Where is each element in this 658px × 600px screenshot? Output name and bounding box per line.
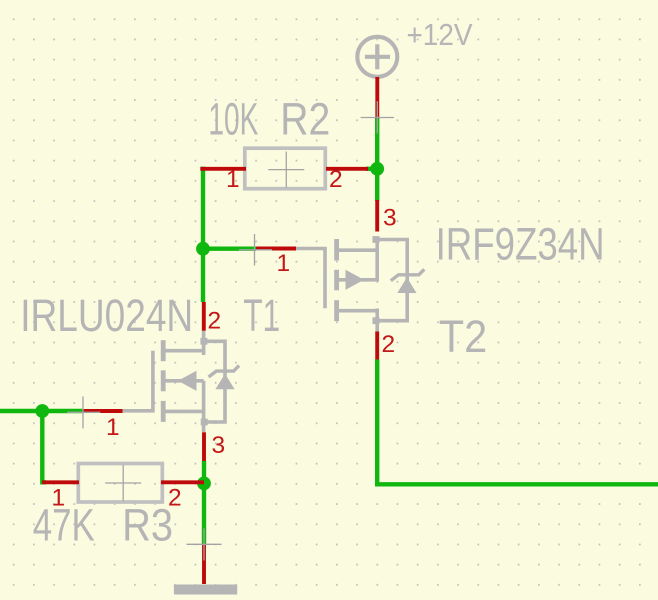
svg-text:10K: 10K	[208, 94, 258, 145]
T2 gate pin cross	[239, 234, 272, 266]
T1 channel bar top	[161, 340, 166, 361]
R2 pin 2	[326, 167, 368, 171]
T2 gate pin 1	[256, 247, 296, 251]
T2 channel bar middle	[334, 270, 339, 291]
T2 body diode triangle	[397, 277, 416, 293]
T1 gate pin cross	[67, 396, 100, 428]
T2 body branch	[377, 240, 407, 321]
T1 drain connector	[164, 349, 204, 353]
wire junction C down to R3 pin1	[42, 411, 46, 482]
svg-text:2: 2	[329, 166, 343, 193]
T1 source pin bump	[201, 419, 208, 426]
junction D dot	[197, 477, 211, 491]
junction C dot	[35, 404, 49, 418]
wire left input to T1 gate pin	[0, 409, 83, 413]
T2 drain pin 3	[375, 200, 379, 232]
T2 source pin 2	[375, 332, 379, 360]
T1 body arrow line	[164, 379, 204, 383]
svg-text:T1: T1	[243, 290, 280, 341]
wire T2 source pin to bottom right output	[377, 360, 658, 485]
svg-text:3: 3	[212, 432, 226, 459]
GND pin	[202, 544, 206, 584]
svg-text:+12V: +12V	[407, 17, 473, 52]
junction B dot	[196, 242, 210, 256]
T2 channel bar bottom	[334, 300, 339, 321]
transistor T2 gate lead	[296, 249, 325, 309]
transistor T1 gate lead	[123, 351, 153, 411]
T1 center line upper	[202, 331, 206, 356]
ground symbol bar	[174, 585, 237, 595]
svg-text:R2: R2	[280, 94, 330, 145]
T1 channel bar bottom	[161, 401, 166, 422]
T1 center line lower	[202, 381, 206, 433]
T2 body diode cathode bar	[391, 269, 425, 280]
T1 gate pin 1	[83, 409, 123, 413]
wire T1 source pin to junction D	[202, 461, 206, 483]
T1 body diode cathode bar	[209, 366, 240, 377]
svg-text:IRLU024N: IRLU024N	[20, 290, 193, 341]
svg-text:IRF9Z34N: IRF9Z34N	[436, 219, 605, 270]
R3 origin cross	[105, 465, 141, 501]
GND pin cross	[187, 528, 222, 560]
+12V pin cross	[361, 101, 394, 133]
wire junction D down to GND pin	[202, 483, 206, 544]
T1 body branch	[204, 341, 225, 422]
wire R2 pin1 down to junction B	[201, 169, 203, 249]
wire from +12V pin to junction A	[375, 118, 379, 169]
+12V pin	[375, 77, 379, 119]
svg-text:1: 1	[277, 250, 291, 277]
T2 channel bar top	[334, 239, 339, 261]
wire junction B down to T1 drain pin	[201, 249, 205, 302]
wire R2 pin2 to junction A	[366, 167, 377, 171]
svg-text:47K: 47K	[33, 499, 95, 550]
svg-text:1: 1	[106, 414, 120, 441]
svg-text:2: 2	[208, 308, 222, 335]
R2 pin 1	[200, 167, 246, 171]
T2 source pin bump	[373, 317, 380, 324]
svg-text:R3: R3	[122, 499, 173, 550]
T2 drain pin bump	[373, 236, 380, 243]
T1 drain pin 2	[202, 302, 206, 331]
R2 origin cross	[268, 152, 304, 188]
wire junction A to T2 drain pin	[375, 169, 379, 201]
T1 drain pin bump	[200, 338, 207, 345]
junction A dot	[370, 162, 384, 176]
svg-text:T2: T2	[439, 311, 488, 362]
svg-text:3: 3	[383, 205, 397, 232]
wire junction B to T2 gate pin	[203, 246, 256, 250]
T2 body arrow line	[337, 278, 377, 282]
R3 pin 2	[161, 480, 204, 484]
T1 channel bar middle	[161, 370, 166, 391]
svg-text:1: 1	[226, 166, 240, 193]
R3 pin 1	[42, 480, 79, 484]
T1 source connector	[164, 410, 204, 414]
T2 center line lower	[375, 309, 379, 332]
T1 body arrow head	[178, 371, 197, 391]
resistor R3 body	[78, 464, 162, 503]
resistor R2 body	[245, 148, 325, 189]
T1 body diode triangle	[215, 374, 234, 390]
T2 center line upper	[375, 238, 379, 282]
T2 drain connector	[337, 248, 377, 252]
svg-text:2: 2	[382, 331, 396, 358]
supply +12V symbol circle	[357, 37, 397, 77]
T1 source pin 3	[202, 432, 206, 461]
T2 source connector	[337, 309, 377, 313]
T2 body arrow head	[346, 270, 365, 290]
